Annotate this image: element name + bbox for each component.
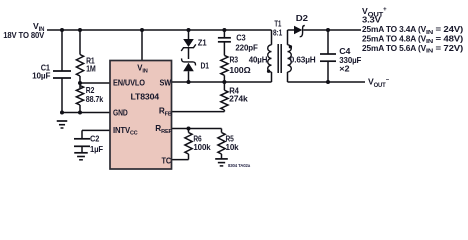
svg-text:LT8304: LT8304 (131, 93, 160, 102)
svg-text:GND: GND (113, 108, 128, 117)
svg-text:220pF: 220pF (235, 42, 257, 52)
svg-text:T1: T1 (274, 20, 281, 29)
svg-text:8304 TA02a: 8304 TA02a (228, 163, 251, 168)
svg-text:0.63µH: 0.63µH (290, 55, 316, 65)
svg-text:D2: D2 (296, 13, 308, 23)
svg-text:1µF: 1µF (90, 144, 103, 154)
svg-text:×2: ×2 (339, 64, 350, 74)
svg-text:18V TO 80V: 18V TO 80V (3, 30, 44, 40)
svg-text:SW: SW (160, 79, 172, 88)
svg-text:10k: 10k (226, 142, 239, 152)
svg-text:EN/UVLO: EN/UVLO (113, 79, 146, 88)
svg-text:25mA TO 5.6A (VIN = 72V): 25mA TO 5.6A (VIN = 72V) (362, 44, 463, 55)
svg-text:C3: C3 (236, 32, 246, 42)
svg-text:8:1: 8:1 (273, 28, 283, 37)
svg-text:R3: R3 (230, 55, 239, 65)
svg-text:1M: 1M (86, 64, 96, 74)
svg-text:100k: 100k (193, 142, 210, 152)
svg-text:40µH: 40µH (249, 55, 268, 65)
svg-text:274k: 274k (229, 94, 248, 104)
svg-text:TC: TC (162, 156, 172, 165)
svg-text:D1: D1 (201, 60, 210, 70)
svg-text:100Ω: 100Ω (229, 65, 251, 75)
svg-text:3.3V: 3.3V (362, 15, 381, 25)
svg-text:C2: C2 (90, 134, 100, 144)
svg-text:VOUT−: VOUT− (368, 77, 390, 89)
svg-text:10µF: 10µF (32, 71, 50, 81)
svg-text:Z1: Z1 (198, 38, 207, 48)
svg-text:88.7k: 88.7k (86, 94, 104, 104)
